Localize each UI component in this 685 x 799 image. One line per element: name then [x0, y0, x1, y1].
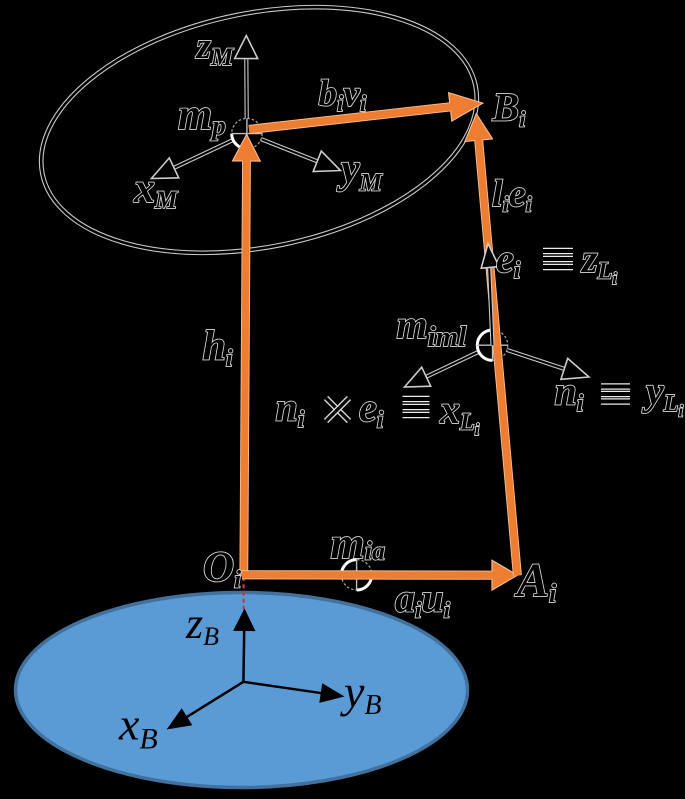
svg-text:bivi: bivi	[319, 74, 367, 117]
svg-text:aiui: aiui	[395, 576, 451, 623]
